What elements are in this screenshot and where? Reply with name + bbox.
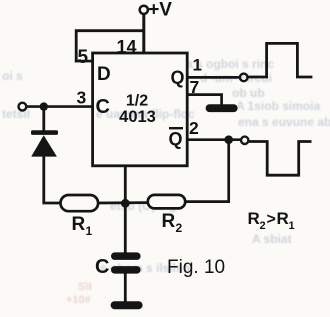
wire : R1 to junction to R2 xyxy=(98,201,149,204)
resistor R2 xyxy=(148,195,185,235)
svg-text:ob ub: ob ub xyxy=(232,86,265,100)
svg-text:2: 2 xyxy=(260,220,266,232)
capacitor C1 xyxy=(95,252,141,278)
Q output terminal xyxy=(240,74,248,82)
wire : R2 right up to pin 2 node xyxy=(185,140,229,202)
svg-text:5: 5 xyxy=(78,47,89,68)
Q-bar output terminal xyxy=(241,137,248,144)
svg-text:C: C xyxy=(96,96,110,118)
diode D1 (cathode up) xyxy=(31,107,58,157)
svg-text:1: 1 xyxy=(193,56,202,75)
svg-text:A sbiat: A sbiat xyxy=(252,232,292,246)
svg-text:+10#: +10# xyxy=(66,294,91,306)
ground (bottom) xyxy=(111,301,143,309)
wire : Q-bar pin 2 output xyxy=(187,138,241,141)
faint pink bleed bottom-left xyxy=(66,281,92,306)
svg-text:2: 2 xyxy=(176,221,183,235)
svg-text:14: 14 xyxy=(117,37,137,57)
svg-text:3: 3 xyxy=(77,88,87,108)
svg-text:C: C xyxy=(95,256,109,278)
annotation R2 > R1 xyxy=(248,209,295,232)
bleed-through printed text (back of page) xyxy=(2,57,330,275)
node C : junction on pin 2 wire xyxy=(224,135,233,144)
resistor R1 xyxy=(61,195,99,238)
svg-text:Q: Q xyxy=(169,129,183,149)
waveform at Q-bar output (negative pulse) xyxy=(249,142,312,176)
+V supply terminal xyxy=(140,0,173,21)
svg-text:1/2: 1/2 xyxy=(126,93,148,110)
svg-text:2: 2 xyxy=(189,118,199,138)
svg-text:+V: +V xyxy=(148,0,172,21)
svg-text:S\t: S\t xyxy=(78,281,92,293)
input terminal (clock) xyxy=(19,103,27,111)
svg-text:R: R xyxy=(162,211,176,232)
node A : junction on input wire xyxy=(40,102,48,110)
Q-bar output label with overline xyxy=(169,128,184,149)
svg-text:1: 1 xyxy=(289,220,295,232)
svg-text:Fig. 10: Fig. 10 xyxy=(167,257,225,278)
pin 5 / pin 14 notch box on top-left of IC xyxy=(75,31,144,68)
wire : +V stem down to IC top (pin 14) xyxy=(142,14,145,53)
svg-text:ena s euvune ab: ena s euvune ab xyxy=(238,115,330,129)
ground (pin 7) xyxy=(206,104,238,112)
svg-text:D: D xyxy=(97,64,111,85)
wire : capacitor to ground xyxy=(124,274,127,303)
svg-text:oi s: oi s xyxy=(2,69,23,83)
svg-text:Q: Q xyxy=(171,68,185,88)
wire : IC bottom stem down through junction to capacitor xyxy=(124,166,127,253)
node B : junction R1/R2/C xyxy=(121,199,130,208)
op-amp U1 : 1/2 4013 flip-flop main body xyxy=(93,53,188,166)
wire : Q pin 1 output xyxy=(187,76,240,79)
svg-text:>: > xyxy=(267,211,276,228)
wire : pin 7 to ground xyxy=(187,95,221,105)
svg-text:A 1siob simoia: A 1siob simoia xyxy=(236,99,321,113)
svg-text:R: R xyxy=(277,209,289,228)
svg-text:1: 1 xyxy=(86,224,93,238)
waveform at Q output (positive pulse) xyxy=(248,43,312,77)
svg-text:R: R xyxy=(72,214,86,235)
wire : input to pin 3 xyxy=(27,105,93,108)
wire : diode anode down and right to R1 xyxy=(44,156,62,204)
svg-text:4013: 4013 xyxy=(119,108,156,126)
svg-text:R: R xyxy=(248,209,260,228)
